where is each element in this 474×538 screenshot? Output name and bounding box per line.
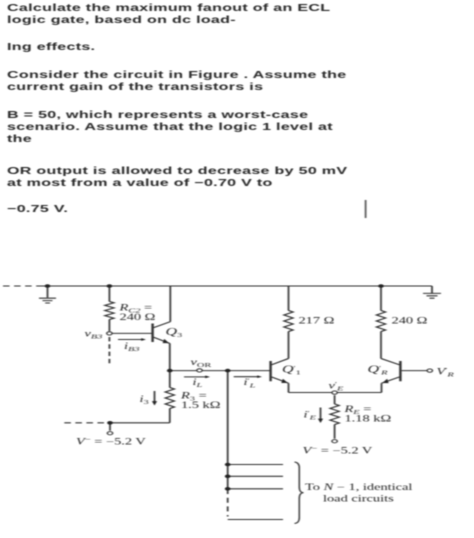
- svg-text:240 Ω: 240 Ω: [120, 312, 156, 322]
- svg-text:i′E: i′E: [304, 409, 317, 421]
- svg-text:240 Ω: 240 Ω: [392, 315, 428, 325]
- svg-text:v′E: v′E: [328, 380, 344, 392]
- svg-text:Q3: Q3: [166, 326, 183, 338]
- svg-text:load circuits: load circuits: [323, 493, 394, 503]
- svg-text:iL: iL: [192, 377, 202, 389]
- svg-text:1.5 kΩ: 1.5 kΩ: [181, 400, 221, 410]
- svg-text:vB3: vB3: [85, 328, 104, 340]
- svg-text:1.18 kΩ: 1.18 kΩ: [344, 413, 391, 423]
- svg-text:217 Ω: 217 Ω: [298, 315, 334, 325]
- svg-text:i′L: i′L: [244, 377, 256, 389]
- svg-text:Q′1: Q′1: [282, 363, 301, 376]
- svg-text:iB3: iB3: [124, 341, 140, 353]
- svg-text:To N − 1, identical: To N − 1, identical: [305, 482, 413, 492]
- svg-text:Q′R: Q′R: [368, 363, 389, 376]
- svg-text:V′R: V′R: [436, 366, 454, 378]
- svg-text:V− = −5.2 V: V− = −5.2 V: [302, 444, 372, 455]
- svg-text:vOR: vOR: [190, 357, 211, 369]
- svg-text:i3: i3: [140, 394, 149, 406]
- svg-text:V− = −5.2 V: V− = −5.2 V: [76, 436, 146, 447]
